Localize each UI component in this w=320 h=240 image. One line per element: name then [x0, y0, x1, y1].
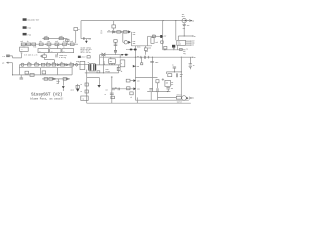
- wire ground tap column: [86, 70, 88, 104]
- transistor arrow dark q7: [133, 79, 136, 82]
- resistor R20: [44, 37, 48, 39]
- svg-text:1N4: 1N4: [88, 37, 91, 40]
- resistor R8: [124, 31, 128, 33]
- wire D7 tail: [62, 89, 64, 91]
- value labels feedback: [44, 36, 63, 38]
- resistor R39: [85, 83, 88, 86]
- svg-text:1%: 1%: [63, 46, 65, 48]
- capacitor C9: [173, 67, 176, 72]
- svg-text:film: film: [33, 46, 36, 48]
- capacitor C19: [118, 88, 119, 91]
- svg-text:R ch same as L ch: R ch same as L ch: [24, 54, 37, 56]
- U5 pin marks: [110, 64, 115, 65]
- svg-text:10: 10: [80, 84, 82, 86]
- wire R37: [130, 80, 133, 82]
- svg-text:470: 470: [21, 48, 23, 51]
- svg-text:blame Pass, as usual!: blame Pass, as usual!: [30, 97, 64, 101]
- wire C2 drop: [75, 31, 77, 44]
- resistor R1: [21, 43, 25, 46]
- resistor R28: [70, 63, 74, 66]
- svg-text:bias: bias: [137, 47, 141, 49]
- resistor R5: [47, 43, 51, 46]
- svg-text:1k: 1k: [70, 62, 72, 64]
- wire cap column x115: [115, 42, 117, 54]
- wire plus drop: [123, 33, 124, 42]
- resistor R31: [44, 78, 48, 81]
- svg-text:w: w: [83, 97, 85, 100]
- wire U5 tap: [110, 57, 112, 59]
- diode arrow out Q6: [189, 97, 191, 99]
- capacitor C1 plus: [40, 55, 42, 58]
- resistor R37: [126, 79, 130, 82]
- svg-text:GND: GND: [192, 43, 195, 45]
- resistor R27: [61, 63, 65, 66]
- wire lower ground bus: [87, 102, 191, 104]
- resistor R35 small: [114, 50, 116, 52]
- node pin dots U1: [190, 41, 191, 46]
- diode arrow out: [189, 19, 191, 21]
- node dot drop: [12, 74, 13, 75]
- svg-text:LI: LI: [2, 55, 5, 58]
- svg-text:63v: 63v: [183, 28, 186, 30]
- capacitor C18: [113, 88, 114, 91]
- plus mark: [121, 31, 123, 33]
- diode D4: [53, 78, 55, 80]
- labels left of U5: [104, 61, 106, 65]
- transistor Q6 arrow: [187, 97, 189, 99]
- opamp block U3: [50, 49, 61, 53]
- resistor R21: [59, 37, 63, 39]
- svg-text:PIN: PIN: [28, 33, 32, 36]
- resistor R42: [111, 96, 115, 99]
- node dots emitter row: [86, 72, 104, 73]
- wire C1 to lower net: [44, 58, 54, 64]
- label bias row left: [101, 31, 103, 35]
- capacitor C8 plus: [140, 56, 142, 59]
- labels below U5: [105, 69, 108, 73]
- svg-text:4x1N: 4x1N: [71, 88, 74, 91]
- resistor R32: [49, 78, 53, 81]
- value labels input bus: [20, 40, 73, 43]
- label Q4: [133, 41, 136, 45]
- node dots row y36: [184, 35, 194, 36]
- wire main input bus: [21, 43, 78, 45]
- svg-text:+B: +B: [192, 20, 194, 22]
- wire diode column x77: [77, 84, 79, 89]
- wire top supply rail: [81, 20, 192, 22]
- pad LI2: [2, 62, 9, 65]
- svg-text:5171: 5171: [182, 16, 186, 18]
- capacitor C7: [182, 24, 186, 27]
- regulator U5 box: [109, 59, 116, 64]
- svg-text:+BV: +BV: [163, 36, 166, 38]
- wire T1 secondary: [97, 64, 121, 66]
- wire U1 pins right: [186, 41, 191, 45]
- diode D1 vertical dark: [85, 41, 88, 43]
- plus marks caps: [115, 87, 116, 88]
- wire U1 rail drop: [175, 21, 177, 41]
- svg-text:R9: R9: [126, 49, 128, 51]
- diode D2: [57, 64, 59, 66]
- value labels signal bus: [28, 61, 72, 64]
- capacitor C15: [157, 88, 158, 92]
- svg-text:2k2: 2k2: [28, 62, 31, 64]
- capacitor C2: [74, 28, 78, 31]
- svg-text:mkp: mkp: [48, 46, 51, 48]
- node junction dots top rail: [162, 20, 192, 21]
- capacitor C10: [177, 73, 178, 77]
- pin mark cap column: [111, 76, 113, 78]
- svg-text:10k: 10k: [35, 62, 38, 64]
- svg-text:63v: 63v: [146, 51, 149, 53]
- resistor R7: [117, 31, 121, 33]
- svg-text:REG: REG: [110, 61, 113, 63]
- wire cap drop left: [20, 75, 22, 78]
- wire pad LI2: [9, 62, 13, 64]
- wire fuse column: [162, 21, 164, 50]
- pin mark left: [76, 61, 77, 63]
- svg-text:10k: 10k: [155, 42, 158, 44]
- capacitor C8b plus: [147, 56, 149, 59]
- svg-text:16v: 16v: [105, 89, 108, 91]
- resistor R18: [63, 43, 67, 46]
- svg-text:OUT: OUT: [192, 41, 195, 43]
- svg-text:in: in: [104, 61, 106, 63]
- wire output cap column: [111, 78, 113, 103]
- wire block taps: [44, 44, 57, 55]
- svg-text:1k: 1k: [63, 41, 65, 43]
- wire D1: [85, 39, 87, 41]
- svg-text:350: 350: [133, 43, 136, 45]
- svg-text:net: net: [57, 83, 60, 85]
- legend item ENCLOSED TEXT: [23, 18, 40, 21]
- transistor arrow dark q8: [133, 87, 136, 90]
- svg-text:ENCLOSED TEXT: ENCLOSED TEXT: [28, 20, 40, 22]
- svg-text:VOL: VOL: [171, 82, 174, 84]
- box right of it: [87, 56, 90, 58]
- svg-text:LM317: LM317: [81, 57, 85, 59]
- tick into K1: [21, 52, 23, 53]
- wire bias row: [107, 31, 128, 33]
- capacitor C13: [150, 61, 154, 62]
- comp above emitter row: [97, 71, 100, 73]
- resistor R11 box on jumper: [153, 35, 156, 37]
- note power text: [59, 54, 67, 59]
- wire emitter row: [85, 72, 119, 74]
- wire virtual ground row: [163, 45, 186, 50]
- svg-text:100u: 100u: [155, 62, 159, 64]
- wire upper jumper: [148, 35, 163, 37]
- resistor R4: [39, 43, 43, 46]
- node dot D9: [135, 66, 136, 67]
- label Q3: [133, 32, 136, 36]
- svg-text:1k: 1k: [27, 41, 29, 43]
- wire led stub: [141, 57, 143, 63]
- svg-text:LED: LED: [137, 66, 140, 68]
- svg-text:100: 100: [47, 41, 50, 43]
- svg-text:x4: x4: [186, 47, 188, 50]
- svg-text:TLE: TLE: [178, 42, 181, 44]
- svg-text:10u: 10u: [187, 25, 190, 27]
- wire R36 column: [118, 65, 120, 73]
- resistor R22: [28, 63, 31, 66]
- opamp block U2: [38, 49, 49, 53]
- svg-text:10k: 10k: [20, 41, 23, 43]
- svg-text:5w: 5w: [101, 32, 103, 34]
- wire mid ground row: [166, 72, 181, 74]
- capacitor DK2 dark: [172, 45, 175, 48]
- wire Q3 column: [130, 32, 132, 46]
- wire tap row y36: [178, 36, 192, 40]
- resistor R23: [35, 63, 39, 66]
- transistor Q6: [182, 96, 187, 101]
- resistor R11b vertical: [151, 38, 154, 44]
- capacitor C11 plus: [162, 78, 164, 81]
- transistor Q4: [124, 41, 127, 44]
- resistor R17: [55, 43, 59, 46]
- heatsink box: [80, 61, 85, 69]
- node dots input bus: [25, 44, 69, 45]
- svg-text:reg: reg: [183, 53, 186, 55]
- wire feedback row: [42, 39, 67, 45]
- wire mid column x152: [151, 57, 153, 91]
- svg-text:POWER 24v: POWER 24v: [59, 54, 67, 57]
- capacitor C16: [114, 44, 118, 45]
- transformer T1 windings: [88, 64, 96, 70]
- wire center column: [134, 46, 136, 100]
- hatch marks DK2: [173, 48, 175, 50]
- capacitor C1: [43, 55, 47, 58]
- arrow mark row: [67, 78, 69, 80]
- relay block K1: [20, 47, 29, 51]
- resistor R38: [130, 92, 133, 95]
- resistor R40: [85, 90, 88, 93]
- wire upper mid rail: [100, 55, 129, 65]
- transistor Q4 arrow dark: [128, 41, 131, 44]
- wire ladder top: [19, 67, 72, 69]
- pin dot left: [78, 61, 79, 62]
- svg-text:4u7: 4u7: [171, 87, 174, 90]
- diode D7 dark: [62, 86, 65, 89]
- svg-text:OPA: OPA: [51, 49, 53, 52]
- diode D5: [113, 31, 115, 33]
- resistor R34: [114, 40, 117, 43]
- resistor R14: [168, 74, 172, 77]
- transistor Q3 arrow dark: [128, 30, 131, 33]
- wire lower comp row: [42, 78, 70, 80]
- diode pair D8 bowtie: [102, 53, 105, 56]
- capacitor C17: [107, 71, 110, 73]
- wire stub C15: [157, 83, 159, 100]
- resistor R24: [41, 63, 45, 66]
- wire emitter bus left: [87, 78, 100, 85]
- wire mid supply rail: [100, 56, 182, 58]
- comp on led stub: [141, 63, 143, 65]
- svg-text:gd: gd: [104, 63, 106, 65]
- pad LI left channel: [2, 55, 9, 58]
- svg-text:RO: RO: [192, 98, 194, 100]
- svg-text:100n: 100n: [148, 47, 152, 49]
- wire drop to R6: [113, 21, 115, 31]
- wire ladder verticals: [19, 65, 72, 75]
- capacitor C3: [82, 37, 85, 39]
- svg-text:OPA: OPA: [39, 49, 41, 52]
- diode D9 dark right: [133, 65, 136, 68]
- svg-text:47k: 47k: [70, 40, 73, 43]
- resistor R33: [63, 78, 66, 81]
- op-amp U1 TLE2426: [177, 40, 186, 45]
- svg-text:2SC: 2SC: [137, 80, 140, 82]
- wire drops from row: [59, 79, 64, 86]
- diode D3: [66, 64, 68, 66]
- transistor Q5 inner mark: [185, 20, 186, 22]
- svg-text:PAD: PAD: [28, 27, 32, 30]
- value labels below input bus: [22, 45, 65, 48]
- capacitor C14: [149, 89, 153, 90]
- resistor R45 in ladder: [25, 71, 29, 74]
- resistor R16: [176, 96, 181, 99]
- svg-text:+B: +B: [194, 57, 196, 59]
- legend item PIN: [23, 33, 32, 36]
- opamp block U4: [62, 49, 74, 53]
- svg-text:330: 330: [52, 62, 55, 64]
- note parts list block: [81, 48, 92, 55]
- switch box SW1: [81, 96, 88, 100]
- label rail right: [183, 50, 186, 55]
- svg-text:OPA: OPA: [63, 49, 65, 52]
- svg-text:pot: pot: [171, 84, 174, 86]
- resistor R2: [27, 43, 31, 46]
- resistor R30: [42, 71, 46, 74]
- capacitor cluster C21: [144, 47, 151, 53]
- svg-text:source: source: [177, 102, 182, 104]
- svg-text:50k: 50k: [166, 82, 169, 84]
- resistor R44 on fuse column: [161, 41, 164, 43]
- capacitor C20: [110, 93, 114, 94]
- trimmer VR1: [21, 63, 24, 66]
- svg-text:+B: +B: [194, 36, 196, 38]
- wire upper output bus: [135, 99, 188, 101]
- node dots ground row: [174, 71, 182, 72]
- battery B1: [189, 57, 192, 69]
- node dot vg: [164, 49, 165, 50]
- wire input drop: [13, 63, 20, 75]
- svg-text:2SA: 2SA: [137, 88, 140, 91]
- transformer T1 leads: [89, 64, 96, 71]
- labels R39 R40: [80, 84, 82, 93]
- fuse F1 dark: [160, 35, 162, 38]
- resistor R9 dark: [130, 49, 132, 51]
- svg-text:9v: 9v: [193, 65, 195, 67]
- svg-text:25v: 25v: [180, 76, 183, 78]
- wire left drop from rail: [80, 21, 82, 39]
- svg-text:1k: 1k: [121, 71, 123, 73]
- svg-text:100n: 100n: [105, 69, 108, 71]
- resistor R36: [117, 67, 120, 70]
- resistor R29: [30, 74, 34, 77]
- svg-text:1u: 1u: [105, 94, 107, 96]
- wire right column: [180, 57, 182, 96]
- wire stub C14: [150, 92, 152, 101]
- resistor R3: [32, 43, 36, 46]
- capacitor C5: [20, 78, 24, 79]
- wire Q5 out arrow: [186, 20, 189, 22]
- svg-text:MJE: MJE: [133, 32, 136, 34]
- label C10: [180, 74, 183, 78]
- svg-text:IN: IN: [192, 45, 194, 47]
- wire ladder bottom: [19, 74, 72, 76]
- svg-text:2SC: 2SC: [182, 14, 185, 16]
- svg-text:10: 10: [80, 91, 82, 93]
- resistor R19: [70, 43, 74, 46]
- diode D11 dark: [76, 89, 79, 92]
- wire bias ladder top: [131, 36, 152, 46]
- resistor R25: [46, 63, 50, 66]
- node dots mid rail: [135, 57, 182, 58]
- resistor R6: [112, 25, 116, 28]
- diode D10 dark: [97, 85, 100, 88]
- component box top of heatsink: [78, 56, 86, 59]
- wire C7 down: [183, 26, 185, 36]
- resistor R13 on vg row: [180, 48, 183, 50]
- box on cap row: [127, 87, 130, 90]
- note text block mid: [57, 81, 60, 85]
- wire Q5 emitter chain: [183, 23, 185, 25]
- svg-text:100k: 100k: [59, 36, 63, 38]
- pin labels U1: [192, 41, 195, 47]
- wire mid column x103: [102, 55, 104, 73]
- varistor RV1 diamond: [75, 63, 78, 66]
- wire lower signal bus: [19, 64, 88, 66]
- pin +BV right: [181, 57, 195, 59]
- wire dark resistor row: [128, 48, 137, 50]
- potentiometer P1: [165, 80, 171, 86]
- svg-text:1u: 1u: [172, 65, 174, 67]
- node dot out: [191, 97, 192, 98]
- resistor R15 small: [156, 80, 159, 83]
- svg-text:MJE: MJE: [133, 41, 136, 43]
- capacitor C8: [144, 56, 145, 59]
- box Z1: [120, 60, 125, 67]
- resistor R26: [52, 63, 56, 66]
- wire bottom stub: [136, 97, 138, 103]
- svg-text:bias: bias: [57, 81, 60, 83]
- wire C21 drop: [144, 46, 146, 55]
- svg-text:4k7: 4k7: [39, 40, 42, 43]
- svg-text:LI: LI: [2, 62, 5, 65]
- label P1: [171, 82, 174, 86]
- svg-text:1k: 1k: [101, 31, 103, 33]
- marks right of vg row: [186, 47, 188, 50]
- svg-text:22k: 22k: [55, 41, 58, 43]
- resistor R43 on feedback vertical: [66, 39, 69, 41]
- wire rail tail row: [81, 38, 91, 40]
- wire pad LI: [9, 53, 21, 58]
- wire gate row: [135, 76, 157, 78]
- svg-text:4k7: 4k7: [61, 61, 64, 64]
- capacitor C4: [56, 54, 57, 57]
- svg-text:SissySST (#2): SissySST (#2): [31, 92, 63, 98]
- wire lower row right: [147, 91, 170, 93]
- svg-text:220u: 220u: [180, 74, 183, 76]
- capacitor C12: [166, 88, 170, 92]
- dark comps on rail: [121, 54, 127, 56]
- legend item PAD: [23, 26, 32, 29]
- svg-text:1n: 1n: [78, 29, 80, 31]
- svg-text:+24: +24: [137, 55, 140, 58]
- svg-text:1k: 1k: [47, 62, 49, 64]
- svg-text:100k: 100k: [44, 36, 48, 38]
